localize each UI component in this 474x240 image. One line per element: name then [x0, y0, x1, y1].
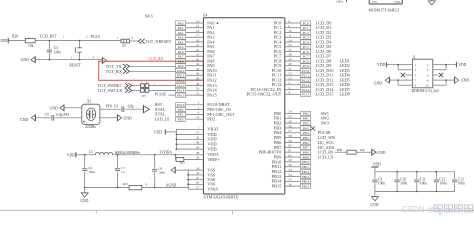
svg-text:6.8p: 6.8p: [56, 113, 62, 117]
svg-text:45: 45: [196, 76, 200, 80]
svg-text:47: 47: [196, 176, 200, 180]
J2 pin7/9 wires to GND: [389, 79, 412, 85]
IC pin PA9 (left): [176, 62, 215, 68]
svg-text:PB11: PB11: [302, 165, 310, 169]
svg-text:PB5: PB5: [303, 136, 309, 140]
ground GND (reset): [21, 57, 104, 63]
svg-text:PA10: PA10: [177, 69, 185, 73]
svg-text:PG10: PG10: [91, 35, 100, 39]
svg-text:VREF+: VREF+: [207, 157, 220, 162]
svg-text:VDD: VDD: [207, 147, 216, 152]
svg-text:PC11: PC11: [302, 74, 310, 78]
svg-text:100n: 100n: [158, 170, 165, 174]
svg-text:49: 49: [196, 82, 200, 86]
decoupling top rail: [375, 171, 455, 173]
IC pin PA15 (left): [176, 91, 217, 97]
J2 pin8/10 wires to GND: [433, 79, 455, 85]
IC pin PA6 (left): [176, 48, 216, 54]
svg-text:10: 10: [425, 84, 429, 88]
capacitor C3: [47, 41, 61, 60]
resistor R21 (0 ohm): [123, 182, 148, 190]
svg-text:GND: GND: [370, 203, 378, 207]
svg-text:2: 2: [86, 35, 88, 39]
svg-text:PF0: PF0: [178, 108, 184, 112]
svg-text:PA3: PA3: [178, 36, 184, 40]
svg-text:100n: 100n: [378, 181, 385, 185]
svg-text:600R@100MHz: 600R@100MHz: [115, 151, 141, 155]
op IC U4 body (STM32): [203, 14, 285, 194]
svg-text:PB4: PB4: [303, 131, 309, 135]
IC pin PB12 (right): [272, 168, 311, 174]
svg-text:2: 2: [427, 63, 429, 67]
wire switch to jumper: [80, 35, 122, 41]
IC pin PA1 (left): [176, 24, 215, 30]
capacitor C10: [395, 172, 408, 192]
power port VDD (J2 right): [456, 62, 466, 67]
svg-text:GND: GND: [20, 118, 28, 122]
svg-text:58: 58: [288, 134, 292, 138]
capacitor C4 / net PF0 (top-right of X1): [100, 104, 143, 112]
capacitor C8: [152, 154, 165, 188]
svg-text:TGT_SWCLK: TGT_SWCLK: [98, 88, 123, 93]
svg-text:PC0: PC0: [303, 21, 309, 25]
svg-text:24MHz: 24MHz: [85, 125, 96, 129]
svg-text:PC13: PC13: [302, 83, 310, 87]
svg-text:PA6: PA6: [178, 50, 184, 54]
svg-text:50: 50: [196, 87, 200, 91]
svg-text:PB14: PB14: [302, 180, 310, 184]
svg-text:LCD_RST: LCD_RST: [40, 34, 57, 38]
svg-text:PA1: PA1: [178, 26, 184, 30]
inductor L1: [84, 150, 176, 156]
net label LCD_RST: [40, 34, 57, 38]
J2 pin2/4 wires to VDD: [433, 64, 457, 70]
svg-text:43: 43: [196, 67, 200, 71]
svg-text:63: 63: [196, 181, 200, 185]
capacitor C7: [115, 154, 125, 188]
IC pin PD2 (left): [155, 116, 215, 122]
svg-text:61: 61: [288, 149, 292, 153]
svg-text:40: 40: [288, 62, 292, 66]
svg-text:3VDD: 3VDD: [0, 38, 7, 43]
svg-text:51: 51: [196, 91, 200, 95]
svg-text:PD2: PD2: [207, 117, 215, 122]
svg-text:32: 32: [196, 136, 200, 140]
IC pin PC2 / net LCD_D2: [274, 29, 332, 35]
svg-text:37: 37: [288, 48, 292, 52]
svg-text:PA12: PA12: [177, 78, 185, 82]
svg-text:VSS: VSS: [394, 0, 400, 4]
capacitor C5 / net PF1 (bottom-left of X1): [35, 113, 81, 121]
svg-text:GND: GND: [461, 79, 469, 83]
J2 pin1/3 wires to VDD: [386, 64, 412, 70]
IC pin PC1 / net LCD_D1: [274, 24, 332, 30]
label RESET: [69, 63, 81, 67]
svg-text:10: 10: [288, 29, 292, 33]
svg-text:4: 4: [427, 68, 429, 72]
IC pin PB2 (right): [274, 119, 329, 125]
IC pin PA11 (left): [176, 72, 217, 78]
svg-text:PB8: PB8: [303, 151, 309, 155]
J2 pin5 no-connect: [401, 73, 413, 77]
IC pin PF1-OSC_OUT (left): [155, 111, 236, 117]
IC pin PB10 (right): [272, 158, 311, 164]
svg-text:100n: 100n: [400, 181, 407, 185]
svg-text:57: 57: [288, 129, 292, 133]
svg-text:SW3: SW3: [321, 121, 329, 126]
net label LCD_RD (red): [149, 57, 164, 61]
IC pin PB1 (right): [274, 115, 329, 121]
wire reset to switch: [49, 35, 79, 41]
ground GND (decoupling bank): [370, 191, 378, 206]
svg-text:PC15-OSC32_OUT: PC15-OSC32_OUT: [247, 92, 282, 97]
svg-text:62: 62: [288, 153, 292, 157]
net label 3VDDA: [159, 151, 172, 155]
IC pin PC14-OSC32_IN / net LCD_D14: [251, 86, 350, 92]
svg-text:29: 29: [288, 158, 292, 162]
IC pin PG10-NRST (left): [155, 101, 230, 107]
power port VDD (analog filter): [67, 152, 85, 157]
svg-text:6.8p: 6.8p: [128, 104, 134, 108]
ground GND (J2 right): [455, 77, 470, 83]
svg-text:0: 0: [146, 183, 148, 187]
svg-text:100n: 100n: [439, 181, 446, 185]
svg-text:2: 2: [131, 36, 133, 40]
svg-text:PB15: PB15: [272, 184, 282, 189]
IC pin PC5 / net LCD_D5: [274, 43, 332, 49]
resistor R08 (BOOT0 pulldown): [335, 148, 372, 154]
off-sheet connector TGT_NRESET: [138, 39, 171, 44]
svg-text:PC6: PC6: [303, 50, 309, 54]
svg-text:PC12: PC12: [302, 78, 310, 82]
svg-text:21: 21: [196, 43, 200, 47]
power rail VDD to VBAT/VDD pins: [154, 126, 219, 152]
svg-text:10k: 10k: [28, 44, 34, 48]
svg-text:PC15: PC15: [302, 93, 310, 97]
svg-text:VDD: VDD: [458, 63, 466, 67]
IC pin PB8-BOOT0 (right): [259, 149, 334, 155]
IC pin PC9 / net LCD_D9: [274, 62, 350, 68]
svg-text:PB10: PB10: [302, 160, 310, 164]
svg-text:35: 35: [288, 178, 292, 182]
IC pin PA0 (left): [176, 19, 219, 25]
svg-text:53: 53: [196, 116, 200, 120]
svg-text:51: 51: [288, 67, 292, 71]
ground GND (C5): [20, 115, 35, 122]
ground mark (top right, clipped): [428, 0, 441, 5]
label MCP4017T-104ELT: [369, 8, 401, 12]
svg-text:56: 56: [288, 124, 292, 128]
svg-text:PF1: PF1: [178, 113, 184, 117]
svg-text:52: 52: [288, 72, 292, 76]
IC pin PB11 (right): [272, 163, 311, 169]
part number STM32G431RBT6: [204, 195, 239, 200]
IC pin VDDA: [176, 151, 219, 157]
decoupling bottom rail: [375, 191, 455, 193]
svg-text:PF1: PF1: [63, 113, 69, 117]
svg-text:27: 27: [196, 186, 200, 190]
svg-text:C5: C5: [45, 113, 49, 117]
off-sheet connector TGT_SWCLK: [98, 88, 141, 93]
IC pin PB9 (right): [274, 153, 334, 159]
svg-text:GND: GND: [80, 199, 88, 203]
svg-text:L1: L1: [89, 150, 93, 154]
svg-text:PC14: PC14: [302, 88, 310, 92]
watermark CSDN: [402, 205, 473, 214]
svg-text:1: 1: [415, 63, 417, 67]
svg-text:LED_LE: LED_LE: [155, 117, 171, 122]
svg-text:PA2: PA2: [178, 31, 184, 35]
svg-text:25: 25: [288, 115, 292, 119]
ground GND (X1 top-left): [50, 105, 82, 111]
svg-text:PA7: PA7: [178, 55, 184, 59]
svg-text:100n: 100n: [420, 181, 427, 185]
IC pin PA4 (left): [176, 38, 216, 44]
svg-text:R21: R21: [123, 182, 129, 186]
power port VDD (decoupling bank): [371, 163, 381, 172]
port arrow (reset rail end): [102, 57, 106, 63]
svg-text:PB6: PB6: [303, 141, 309, 145]
svg-text:1: 1: [71, 56, 73, 60]
svg-text:1: 1: [154, 83, 156, 87]
svg-text:1: 1: [63, 35, 65, 39]
svg-text:29: 29: [196, 156, 200, 160]
svg-text:38: 38: [288, 53, 292, 57]
IC pin PA12 (left): [176, 76, 217, 82]
IC pin PC15-OSC32_OUT / net LCD_D15: [247, 91, 350, 97]
ground GND (X1 bottom-right): [100, 115, 132, 121]
svg-text:VDD: VDD: [154, 131, 162, 135]
off-sheet connector TGT_TX: [106, 64, 176, 69]
svg-text:VDD: VDD: [377, 63, 385, 67]
svg-text:TGT_NRESET: TGT_NRESET: [145, 39, 171, 44]
svg-text:DDR3M-2.54_2x5: DDR3M-2.54_2x5: [412, 89, 439, 93]
svg-text:JP3: JP3: [142, 94, 147, 98]
svg-text:26: 26: [288, 119, 292, 123]
svg-text:VDD: VDD: [373, 163, 381, 167]
svg-text:PA0: PA0: [178, 21, 184, 25]
label DDR3M-2.54_2x5: [412, 89, 439, 93]
power port VDD (J2 left): [377, 62, 386, 67]
capacitor C13: [452, 172, 465, 192]
svg-text:·•··: ·•··: [437, 0, 441, 4]
svg-text:PC2: PC2: [303, 31, 309, 35]
svg-text:8: 8: [427, 78, 429, 82]
svg-text:PA15: PA15: [207, 93, 216, 98]
svg-text:100n: 100n: [336, 0, 343, 4]
svg-text:PA5: PA5: [178, 45, 184, 49]
svg-text:30: 30: [288, 163, 292, 167]
IC pin PC7 / net LCD_D7: [274, 53, 332, 59]
port arrow (PF0 line end): [143, 106, 149, 113]
label SW 6: [145, 15, 153, 19]
off-sheet connector TGT_SWDIO: [98, 83, 141, 88]
svg-text:PA12: PA12: [207, 77, 216, 82]
svg-text:VDD: VDD: [67, 153, 75, 157]
svg-text:GND: GND: [50, 107, 58, 111]
IC pin PA5 (left): [176, 43, 215, 49]
ground GND (filter): [80, 187, 88, 203]
svg-text:4: 4: [93, 55, 95, 59]
svg-text:U4: U4: [203, 14, 208, 18]
ground GND (BOOT0): [372, 149, 386, 155]
svg-text:5: 5: [415, 73, 417, 77]
svg-text:22: 22: [196, 48, 200, 52]
svg-text:PD2: PD2: [178, 118, 184, 122]
svg-text:PG10: PG10: [177, 103, 185, 107]
IC pin PA10 (left): [176, 67, 217, 73]
svg-text:@: @: [427, 205, 435, 214]
svg-text:39: 39: [288, 57, 292, 61]
svg-text:PB12: PB12: [302, 170, 310, 174]
svg-text:PC10: PC10: [302, 69, 310, 73]
svg-text:GND: GND: [377, 151, 385, 155]
push button SW6 (reset): [71, 40, 95, 61]
svg-text:24: 24: [288, 110, 292, 114]
IC pin PF0-OSC_IN (left): [155, 106, 231, 112]
svg-text:10k: 10k: [360, 148, 365, 152]
svg-text:1: 1: [117, 36, 119, 40]
svg-text:3VDDA: 3VDDA: [159, 151, 172, 155]
svg-text:C3: C3: [54, 46, 58, 50]
IC pin PA3 (left): [176, 34, 215, 40]
capacitor C9: [372, 172, 385, 192]
IC pin PC12 / net LCD_D12: [272, 76, 350, 82]
solder jumper (PG10 - TGT_NRESET): [117, 36, 139, 47]
IC pin PA8 (left): [176, 57, 215, 63]
IC pin PB13 (right): [272, 173, 311, 179]
wire PULSE to PA15: [154, 83, 176, 96]
ferrite bead FB1 (VREF+): [175, 154, 221, 165]
svg-text:GND: GND: [21, 58, 29, 62]
highlight box (red): [99, 61, 204, 80]
svg-text:19: 19: [196, 131, 200, 135]
crystal X1: [82, 99, 100, 129]
svg-text:X1: X1: [87, 99, 92, 103]
capacitor C6: [82, 155, 95, 188]
capacitor 100n (clipped at top): [336, 0, 347, 4]
svg-text:34: 34: [288, 173, 292, 177]
IC pin PC0 / net LCD_D0: [274, 19, 332, 25]
power port VDD (reset pull-up): [0, 38, 25, 43]
IC pin PB7 (right): [274, 144, 335, 150]
svg-text:PB3: PB3: [303, 126, 309, 130]
ground GND (J2 left): [374, 77, 390, 86]
IC pin PC10 / net LCD_D10: [272, 67, 350, 73]
svg-text:42: 42: [196, 62, 200, 66]
svg-text:SW 6: SW 6: [145, 15, 153, 19]
svg-text:LCD_RD: LCD_RD: [149, 57, 164, 61]
svg-text:TGT_RX: TGT_RX: [106, 69, 122, 74]
svg-text:PB7: PB7: [303, 146, 309, 150]
svg-text:R17: R17: [180, 161, 186, 165]
svg-text:R08: R08: [337, 148, 343, 152]
svg-text:60: 60: [288, 144, 292, 148]
capacitor C12: [434, 172, 447, 192]
J2 pin6 no-connect: [433, 73, 443, 77]
svg-text:PA13: PA13: [177, 84, 185, 88]
jumper block JP3 (SWD): [141, 81, 176, 98]
IC pin PA13 (left): [176, 82, 217, 88]
IC pin PB0 (right): [274, 110, 329, 116]
svg-text:15: 15: [196, 24, 200, 28]
svg-text:24: 24: [288, 38, 292, 42]
svg-text:PC1: PC1: [303, 26, 309, 30]
svg-text:PB0: PB0: [303, 112, 309, 116]
IC pin PA14 (left): [176, 87, 218, 93]
svg-text:18: 18: [196, 166, 200, 170]
svg-text:9: 9: [415, 84, 417, 88]
sheet border line: [0, 210, 474, 215]
svg-text:41: 41: [196, 57, 200, 61]
connector J2 body: [412, 55, 433, 87]
svg-text:23: 23: [196, 53, 200, 57]
svg-text:PA4: PA4: [178, 40, 184, 44]
junction C3/GND rail: [49, 59, 51, 61]
svg-text:48: 48: [196, 141, 200, 145]
svg-text:7: 7: [415, 78, 417, 82]
off-sheet connector TGT_RX: [106, 69, 176, 74]
IC pin PB4 (right): [274, 129, 331, 135]
svg-text:GND: GND: [374, 82, 382, 86]
svg-text:R20: R20: [12, 34, 18, 38]
svg-text:PA15: PA15: [177, 93, 185, 97]
svg-text:100n: 100n: [458, 181, 465, 185]
svg-text:44: 44: [196, 72, 200, 76]
svg-text:17: 17: [196, 34, 200, 38]
svg-text:PULSE: PULSE: [155, 92, 167, 96]
resistor R20: [12, 34, 49, 48]
svg-text:CSDN: CSDN: [402, 205, 425, 214]
IC pin PB15 (right): [272, 182, 311, 188]
svg-text:PB2: PB2: [303, 121, 309, 125]
svg-text:PB9: PB9: [303, 155, 309, 159]
svg-text:PA8: PA8: [178, 59, 184, 63]
IC pin PB14 (right): [272, 178, 311, 184]
IC pin PC6 / net LCD_D6: [274, 48, 332, 54]
svg-text:59: 59: [288, 139, 292, 143]
svg-text:VSSA: VSSA: [207, 187, 219, 192]
svg-text:20: 20: [196, 38, 200, 42]
svg-text:LED8: LED8: [340, 92, 350, 97]
svg-text:3: 3: [415, 68, 417, 72]
svg-text:AGND: AGND: [166, 183, 177, 187]
svg-text:GND: GND: [124, 116, 132, 120]
IC pin PB6 (right): [274, 139, 334, 145]
capacitor C11: [414, 172, 427, 192]
IC pin PA2 (left): [176, 29, 215, 35]
svg-text:25: 25: [288, 43, 292, 47]
svg-text:PC7: PC7: [303, 55, 309, 59]
svg-text:PC3: PC3: [303, 36, 309, 40]
ground bus to VSS pins: [171, 166, 219, 191]
svg-text:STM32G431RBT6: STM32G431RBT6: [204, 195, 239, 200]
svg-text:16: 16: [196, 29, 200, 33]
svg-text:LCD_CS: LCD_CS: [318, 154, 334, 159]
svg-text:PC5: PC5: [303, 45, 309, 49]
svg-text:VW: VW: [372, 0, 377, 4]
svg-text:1u: 1u: [121, 170, 125, 174]
svg-text:31: 31: [196, 171, 200, 175]
svg-text:RESET: RESET: [69, 63, 81, 67]
svg-text:C4: C4: [114, 104, 118, 108]
svg-text:LCD_D15: LCD_D15: [316, 92, 334, 97]
svg-text:64: 64: [196, 145, 200, 149]
IC pin PC3 / net LCD_D3: [274, 34, 332, 40]
IC pin PC13 / net LCD_D13: [272, 81, 350, 87]
svg-text:14: 14: [196, 19, 200, 23]
svg-text:PC8: PC8: [303, 59, 309, 63]
